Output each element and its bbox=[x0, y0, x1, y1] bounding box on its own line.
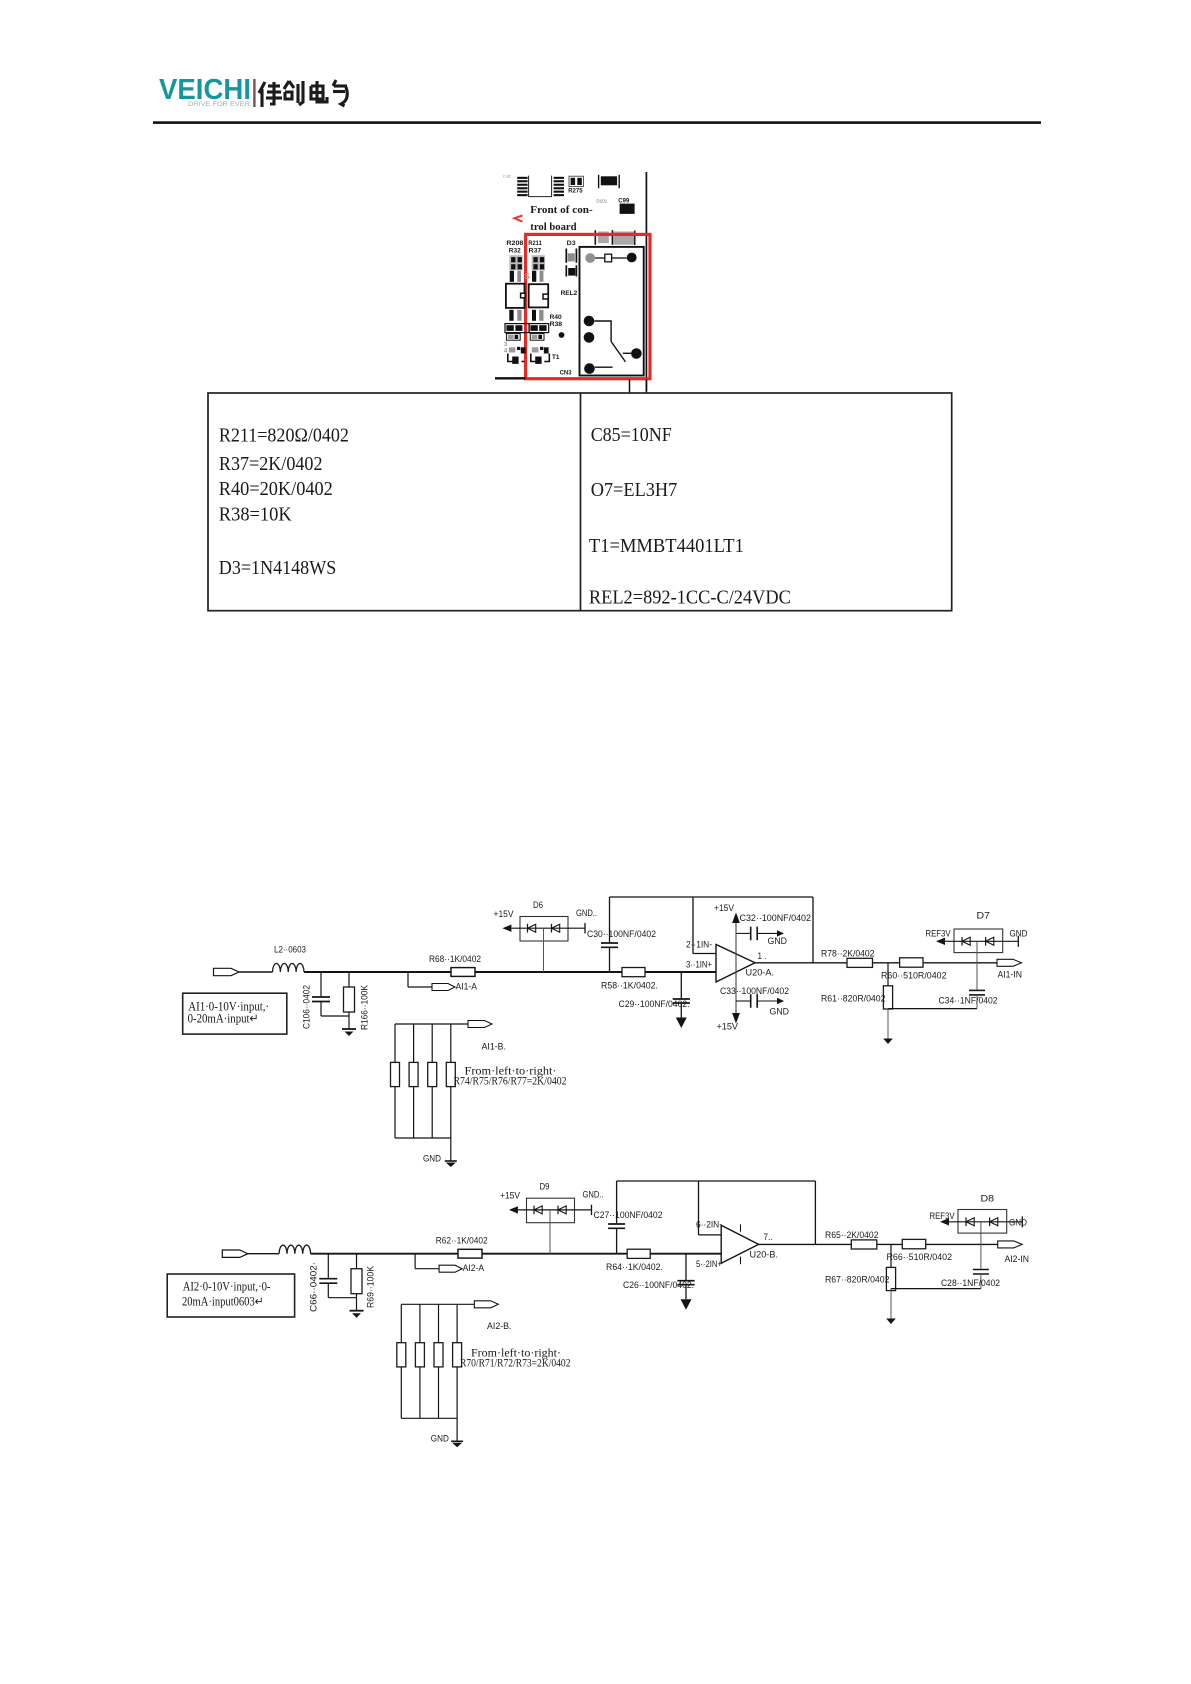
resistor R65 bbox=[825, 1230, 879, 1249]
relay REL2 outline bbox=[580, 247, 644, 376]
AI1 input connector bbox=[214, 968, 240, 975]
svg-text:R65··2K/0402: R65··2K/0402 bbox=[825, 1230, 879, 1241]
resistor R60 bbox=[881, 958, 947, 982]
op-amp U20-B bbox=[696, 1220, 778, 1271]
svg-text:3··1IN+: 3··1IN+ bbox=[686, 960, 712, 971]
svg-text:C28··1NF/0402: C28··1NF/0402 bbox=[941, 1278, 1000, 1289]
gray capacitor pads above relay bbox=[595, 230, 635, 245]
small footprints below bbox=[506, 334, 544, 341]
feedback loop wire and capacitor C27 bbox=[594, 1181, 816, 1254]
svg-text:GND: GND bbox=[1010, 929, 1028, 940]
PCB capacitor footprint top right bbox=[599, 175, 620, 188]
svg-text:C66··0402·: C66··0402· bbox=[309, 1262, 320, 1312]
SMD footprint under R37 bbox=[525, 255, 545, 282]
svg-text:R68··1K/0402: R68··1K/0402 bbox=[429, 954, 481, 965]
ground under resistor bank bbox=[431, 1418, 463, 1447]
main input net wire bbox=[311, 1253, 722, 1255]
svg-text:trol board: trol board bbox=[530, 221, 576, 233]
svg-text:T1=MMBT4401LT1: T1=MMBT4401LT1 bbox=[589, 536, 744, 557]
ground under R61 bbox=[883, 1009, 893, 1044]
net label AI2-IN bbox=[998, 1241, 1029, 1265]
svg-text:R38: R38 bbox=[550, 321, 563, 328]
note from left to right bbox=[460, 1346, 571, 1370]
svg-text:L2··0603: L2··0603 bbox=[274, 945, 306, 956]
svg-text:D101: D101 bbox=[596, 198, 607, 203]
svg-text:2··1IN-: 2··1IN- bbox=[686, 940, 712, 951]
table right column text bbox=[589, 425, 791, 608]
ground under input RC bbox=[350, 1311, 364, 1318]
PCB right vertical trace bbox=[645, 172, 647, 391]
resistor R61 bbox=[821, 963, 893, 1009]
net label AI1-A bbox=[408, 972, 478, 993]
svg-text:R37=2K/0402: R37=2K/0402 bbox=[219, 454, 323, 475]
svg-text:R40: R40 bbox=[550, 314, 562, 321]
capacitor C33 bbox=[720, 986, 789, 1018]
capacitor C29 bbox=[619, 972, 690, 1028]
svg-text:R62··1K/0402: R62··1K/0402 bbox=[436, 1236, 488, 1247]
svg-text:+15V: +15V bbox=[717, 1022, 739, 1033]
wire to inverting input bbox=[699, 1181, 722, 1235]
svg-text:R166··100K: R166··100K bbox=[360, 984, 371, 1030]
wire input to inductor bbox=[239, 971, 273, 973]
logo Chinese text 伟创电气 bbox=[259, 80, 347, 107]
svg-text:REL2=892-1CC-C/24VDC: REL2=892-1CC-C/24VDC bbox=[589, 587, 791, 608]
svg-text:Front of con-: Front of con- bbox=[530, 204, 593, 216]
svg-text:C30··100NF/0402: C30··100NF/0402 bbox=[587, 929, 656, 940]
wire input to inductor bbox=[248, 1253, 279, 1255]
svg-text:1 .: 1 . bbox=[758, 951, 767, 962]
svg-text:7..: 7.. bbox=[764, 1232, 773, 1243]
svg-text:AI1-IN: AI1-IN bbox=[998, 970, 1023, 981]
svg-text:C106··0402: C106··0402 bbox=[302, 985, 313, 1029]
op-amp power pin stubs bbox=[740, 1224, 742, 1264]
svg-text:GND..: GND.. bbox=[576, 908, 597, 919]
svg-text:R211: R211 bbox=[528, 240, 542, 247]
label CN3 bbox=[560, 369, 572, 376]
svg-text:O7=EL3H7: O7=EL3H7 bbox=[591, 480, 678, 501]
svg-text:C85=10NF: C85=10NF bbox=[591, 425, 672, 446]
resistor R62 bbox=[436, 1236, 488, 1258]
capacitor C28 bbox=[941, 1222, 1000, 1289]
wire to inverting input bbox=[693, 897, 716, 954]
PCB capacitor C99 bbox=[618, 199, 634, 214]
svg-text:GND..: GND.. bbox=[583, 1190, 604, 1201]
svg-text:DRIVE FOR EVER: DRIVE FOR EVER bbox=[188, 101, 250, 108]
PCB label D101 bbox=[596, 198, 607, 203]
VEICHI logo wordmark bbox=[159, 74, 251, 108]
svg-text:+15V: +15V bbox=[494, 909, 515, 920]
svg-text:R38=10K: R38=10K bbox=[219, 505, 292, 526]
resistor R78 bbox=[821, 948, 875, 967]
red callout arrow bbox=[515, 216, 523, 222]
capacitor C32 bbox=[736, 913, 811, 947]
transistor T1 footprints bbox=[504, 341, 550, 364]
note box AI2 input description bbox=[167, 1274, 294, 1317]
svg-text:GND: GND bbox=[431, 1434, 449, 1445]
capacitor C34 bbox=[939, 941, 998, 1008]
svg-text:C33··100NF/0402: C33··100NF/0402 bbox=[720, 986, 789, 997]
capacitor C66 bbox=[309, 1254, 357, 1312]
svg-text:R69··100K: R69··100K bbox=[366, 1265, 377, 1308]
resistors R70-R73 bbox=[397, 1304, 462, 1418]
svg-text:R61··820R/0402: R61··820R/0402 bbox=[821, 994, 886, 1005]
PCB labels R208 R211 R32 R37 D3 bbox=[506, 240, 576, 255]
svg-text:+15V: +15V bbox=[714, 903, 735, 914]
diode D3 footprint bbox=[566, 249, 576, 277]
svg-text:AI2-B.: AI2-B. bbox=[487, 1321, 512, 1332]
svg-text:GND: GND bbox=[768, 936, 788, 947]
svg-text:D9: D9 bbox=[540, 1182, 550, 1193]
svg-text:D6: D6 bbox=[533, 900, 543, 911]
resistor R67 bbox=[825, 1244, 896, 1290]
svg-text:R40=20K/0402: R40=20K/0402 bbox=[219, 479, 333, 500]
svg-text:5··2IN+: 5··2IN+ bbox=[696, 1259, 722, 1270]
svg-text:R58··1K/0402.: R58··1K/0402. bbox=[601, 981, 658, 992]
svg-text:C34··1NF/0402: C34··1NF/0402 bbox=[939, 996, 998, 1007]
svg-text:AI2-A: AI2-A bbox=[463, 1263, 485, 1274]
svg-text:GND: GND bbox=[770, 1007, 790, 1018]
ground under R67 bbox=[886, 1289, 896, 1324]
svg-text:C26··100NF/0402.: C26··100NF/0402. bbox=[623, 1280, 694, 1291]
svg-text:T1: T1 bbox=[552, 354, 560, 361]
svg-text:REF3V: REF3V bbox=[926, 929, 952, 940]
capacitor C106 bbox=[302, 972, 350, 1029]
resistor footprints R40/R38 bbox=[505, 324, 549, 333]
net label AI1-B bbox=[395, 1021, 506, 1053]
op-amp U20-A bbox=[686, 940, 774, 983]
ground under input RC bbox=[342, 1029, 356, 1036]
resistor R68 bbox=[429, 954, 481, 976]
svg-text:D3: D3 bbox=[567, 240, 576, 247]
inductor L? bbox=[279, 1245, 311, 1254]
svg-text:R66··510R/0402: R66··510R/0402 bbox=[887, 1252, 953, 1263]
svg-text:GND: GND bbox=[423, 1154, 441, 1165]
bottom RC wire bbox=[888, 1008, 977, 1010]
resistor R64 bbox=[606, 1249, 663, 1273]
svg-text:AI1-A: AI1-A bbox=[456, 982, 478, 993]
svg-text:R60··510R/0402: R60··510R/0402 bbox=[881, 971, 947, 982]
note box AI1 input description bbox=[183, 993, 287, 1034]
note from left to right bbox=[454, 1064, 567, 1088]
svg-text:R208: R208 bbox=[506, 240, 523, 247]
svg-text:R74/R75/R76/R77=2K/0402: R74/R75/R76/R77=2K/0402 bbox=[454, 1074, 567, 1088]
capacitor C26 bbox=[623, 1254, 695, 1310]
main input net wire bbox=[304, 971, 716, 973]
resistor R69 bbox=[351, 1254, 377, 1311]
label T1 bbox=[552, 354, 560, 361]
dual diode D7 bbox=[926, 911, 1028, 953]
inductor L2 bbox=[273, 945, 307, 973]
svg-text:R275: R275 bbox=[568, 188, 583, 194]
opto IC bodies bbox=[506, 284, 548, 308]
svg-text:AI1-B.: AI1-B. bbox=[482, 1042, 507, 1053]
label REL2 bbox=[561, 290, 578, 297]
dual diode D9 bbox=[500, 1182, 604, 1254]
relay contact pins bbox=[584, 316, 642, 374]
bottom trace stub left bbox=[495, 377, 526, 379]
svg-text:S: S bbox=[525, 272, 531, 281]
dual diode D8 bbox=[930, 1194, 1028, 1234]
PCB layout picture: IC footprint U? top-left bbox=[503, 175, 564, 197]
feedback loop wire and capacitor C30 bbox=[587, 897, 813, 972]
resistor R66 bbox=[887, 1239, 953, 1263]
svg-text:D7: D7 bbox=[977, 911, 991, 922]
net label AI2-B bbox=[401, 1301, 511, 1332]
svg-text:U20-A.: U20-A. bbox=[746, 968, 775, 979]
red highlight rectangle bbox=[526, 234, 650, 378]
svg-text:R78··2K/0402: R78··2K/0402 bbox=[821, 948, 875, 959]
component value table frame bbox=[208, 393, 952, 611]
svg-text:GND: GND bbox=[1009, 1218, 1027, 1229]
svg-text:C29··100NF/0402:: C29··100NF/0402: bbox=[619, 999, 690, 1010]
resistors R74-R77 bbox=[391, 1024, 456, 1138]
svg-text:R211=820Ω/0402: R211=820Ω/0402 bbox=[219, 426, 349, 447]
relay coil pins and coil resistor bbox=[585, 253, 636, 263]
svg-text:C 82: C 82 bbox=[503, 175, 511, 179]
svg-text:6··2IN-: 6··2IN- bbox=[696, 1220, 722, 1231]
output net wire bbox=[755, 962, 997, 964]
svg-text:R64··1K/0402.: R64··1K/0402. bbox=[606, 1262, 663, 1273]
svg-text:CN3: CN3 bbox=[560, 369, 572, 376]
header horizontal rule bbox=[153, 121, 1041, 124]
svg-text:+15V: +15V bbox=[500, 1191, 521, 1202]
output net wire bbox=[759, 1243, 998, 1245]
svg-text:20mA·input0603↵: 20mA·input0603↵ bbox=[182, 1295, 264, 1309]
svg-text:U20-B.: U20-B. bbox=[750, 1250, 779, 1261]
AI2 input connector bbox=[222, 1250, 248, 1257]
power rail +15V bbox=[714, 903, 740, 1033]
svg-text:C27··100NF/0402: C27··100NF/0402 bbox=[594, 1210, 663, 1221]
dual diode D6 bbox=[494, 900, 598, 972]
resistor R166 bbox=[344, 972, 371, 1030]
svg-text:D8: D8 bbox=[981, 1194, 995, 1205]
svg-text:R67··820R/0402: R67··820R/0402 bbox=[825, 1275, 890, 1286]
table left column text bbox=[219, 426, 349, 579]
net label AI1-IN bbox=[997, 959, 1022, 980]
net label AI2-A bbox=[415, 1254, 485, 1275]
svg-text:4: 4 bbox=[504, 348, 508, 355]
svg-text:AI2·0-10V·input,·0-: AI2·0-10V·input,·0- bbox=[183, 1280, 271, 1294]
bottom RC wire bbox=[891, 1288, 981, 1290]
traces below opto bodies bbox=[509, 310, 543, 321]
relay switch linkage bbox=[594, 321, 631, 367]
svg-text:C32··100NF/0402: C32··100NF/0402 bbox=[740, 913, 812, 924]
connector stubs down to table bbox=[630, 380, 647, 394]
resistor R58 bbox=[601, 968, 658, 992]
ground under resistor bank bbox=[423, 1138, 457, 1167]
svg-text:R37: R37 bbox=[529, 248, 542, 255]
text Front of control board bbox=[530, 204, 593, 233]
svg-text:R32: R32 bbox=[509, 248, 521, 255]
svg-text:R70/R71/R72/R73=2K/0402: R70/R71/R72/R73=2K/0402 bbox=[460, 1356, 571, 1370]
SMD footprint under R32 bbox=[509, 255, 522, 282]
svg-text:REF3V: REF3V bbox=[930, 1211, 956, 1222]
svg-text:AI2-IN: AI2-IN bbox=[1005, 1254, 1030, 1265]
svg-text:0-20mA·input↵: 0-20mA·input↵ bbox=[188, 1012, 259, 1026]
svg-text:D3=1N4148WS: D3=1N4148WS bbox=[219, 558, 336, 579]
via dot bbox=[559, 332, 565, 338]
logo divider bar bbox=[253, 79, 255, 107]
labels R40 R38 bbox=[550, 314, 563, 328]
PCB resistor footprint R275 bbox=[568, 176, 583, 194]
svg-text:REL2: REL2 bbox=[561, 290, 578, 297]
